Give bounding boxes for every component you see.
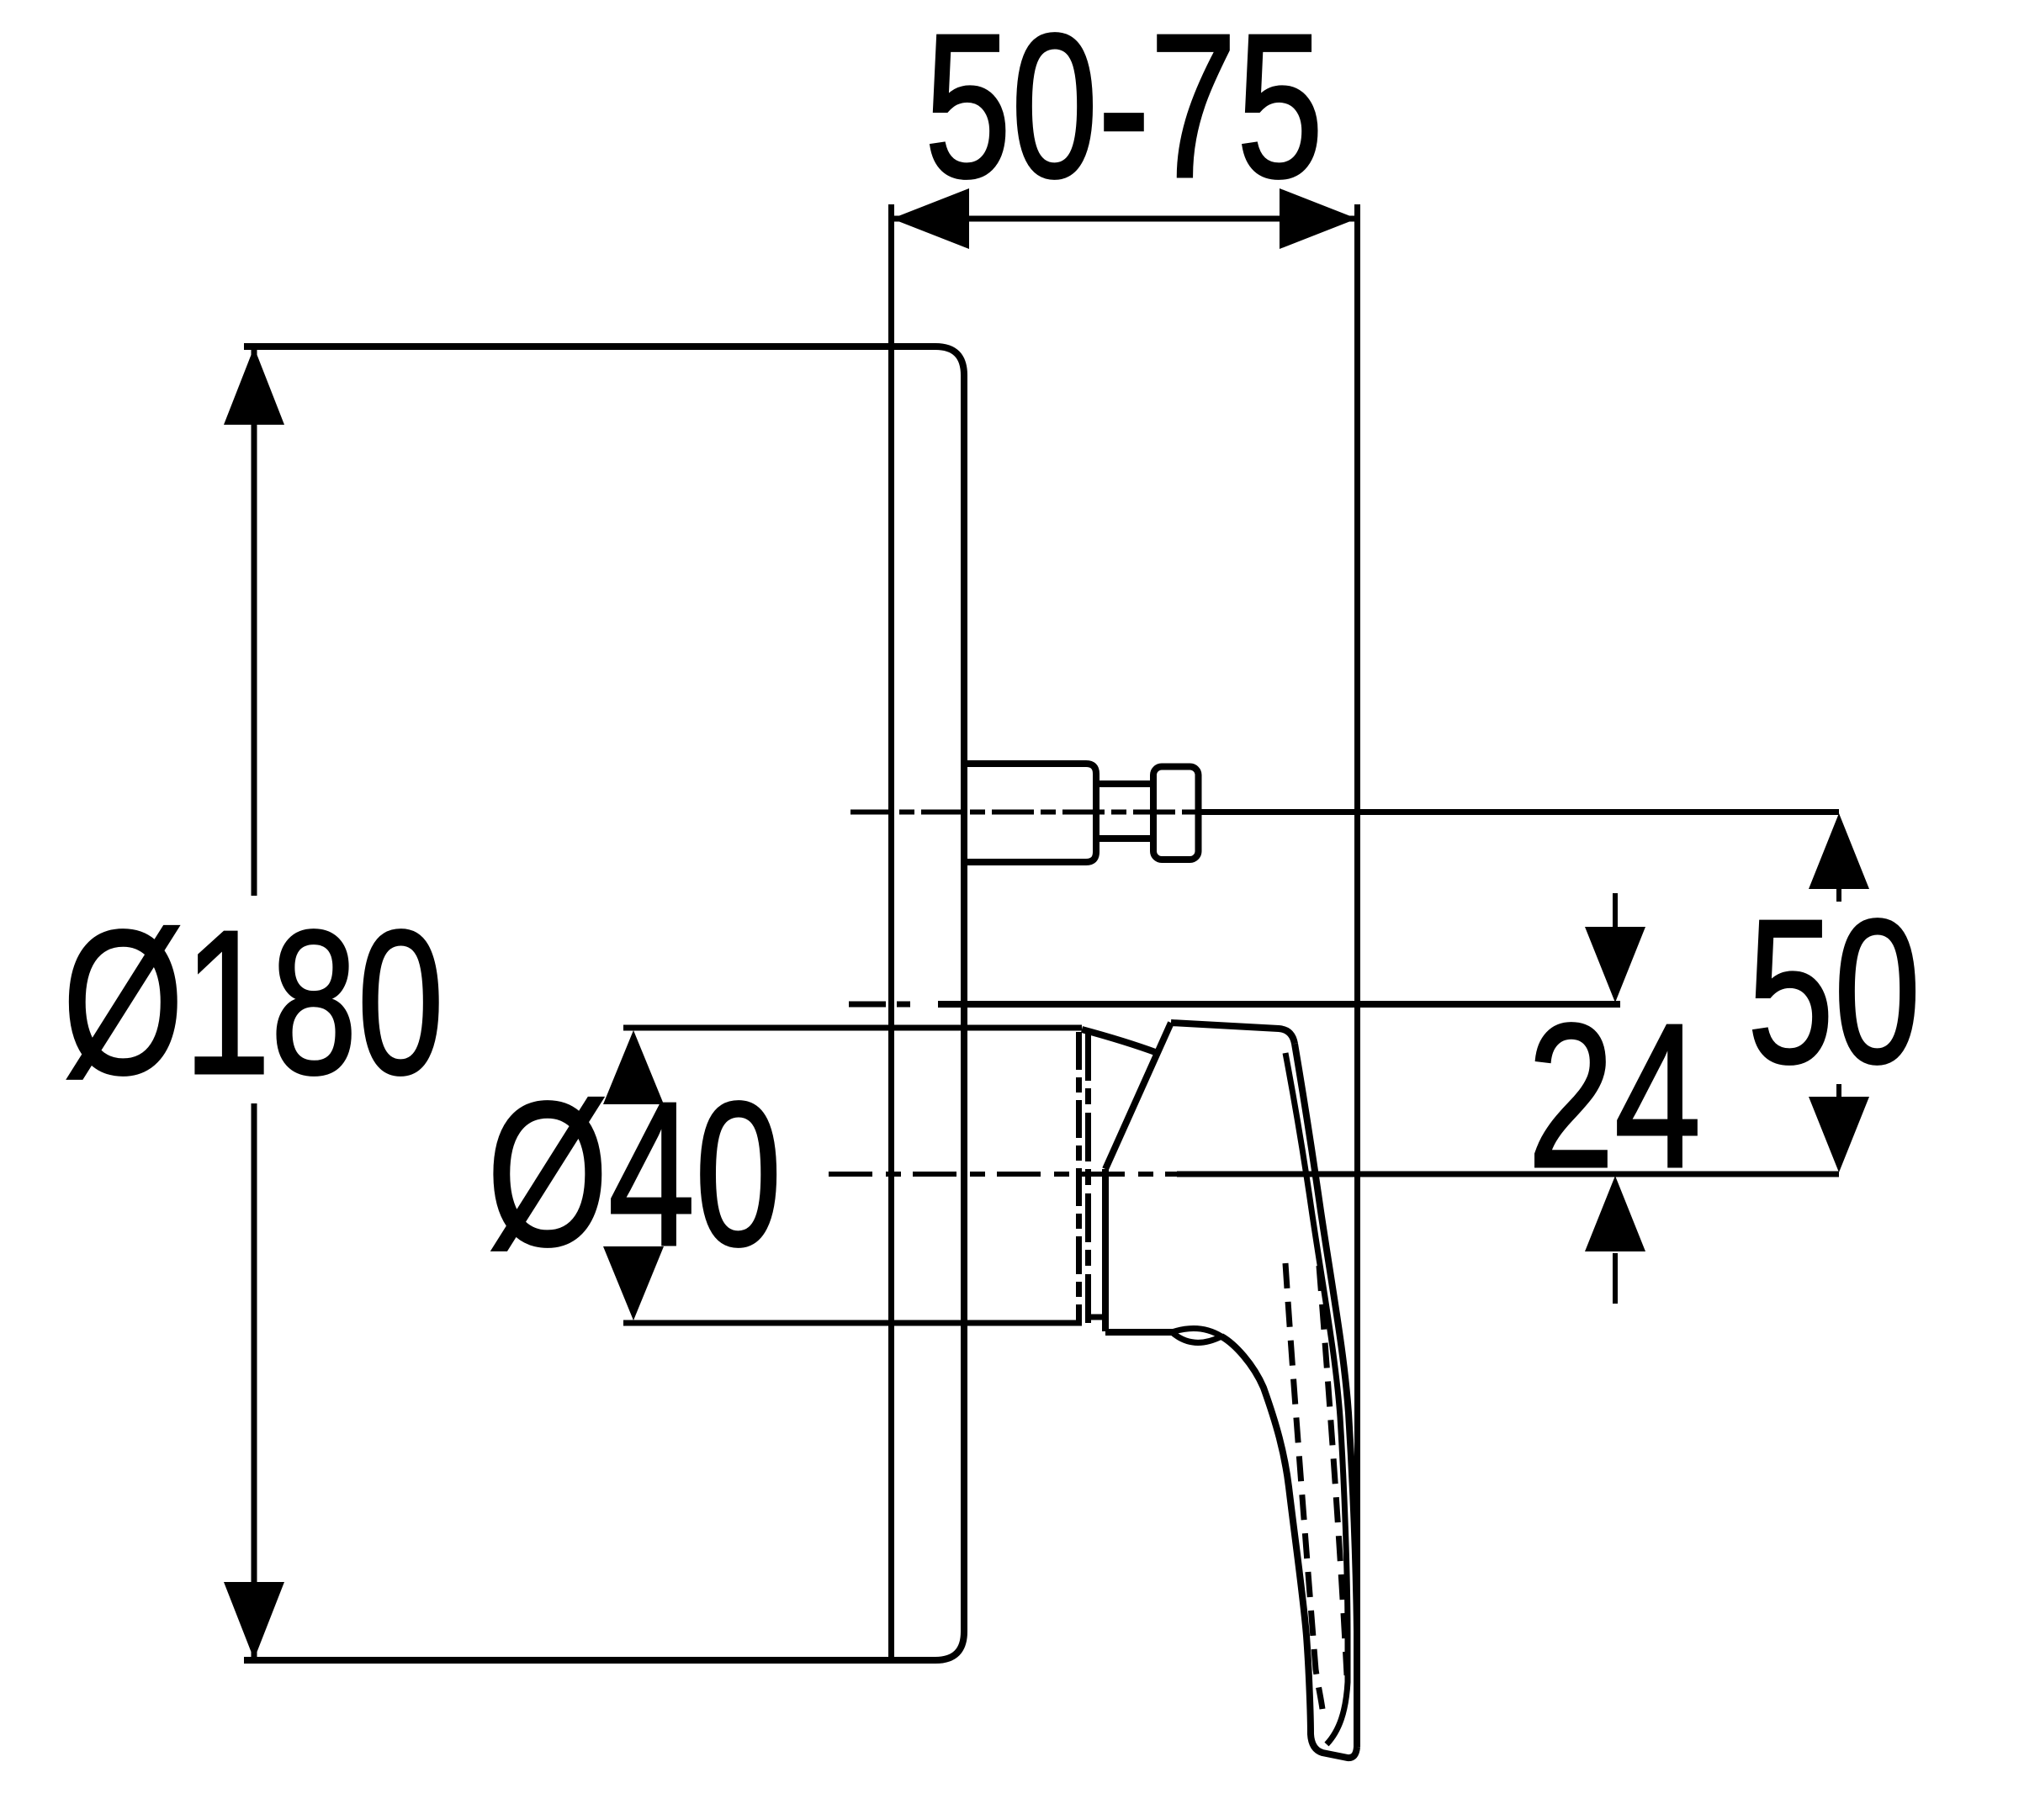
svg-text:50: 50 (1747, 876, 1921, 1105)
svg-text:Ø40: Ø40 (487, 1059, 782, 1288)
svg-text:50-75: 50-75 (925, 0, 1323, 220)
svg-text:Ø180: Ø180 (62, 887, 444, 1116)
svg-text:24: 24 (1528, 981, 1701, 1209)
